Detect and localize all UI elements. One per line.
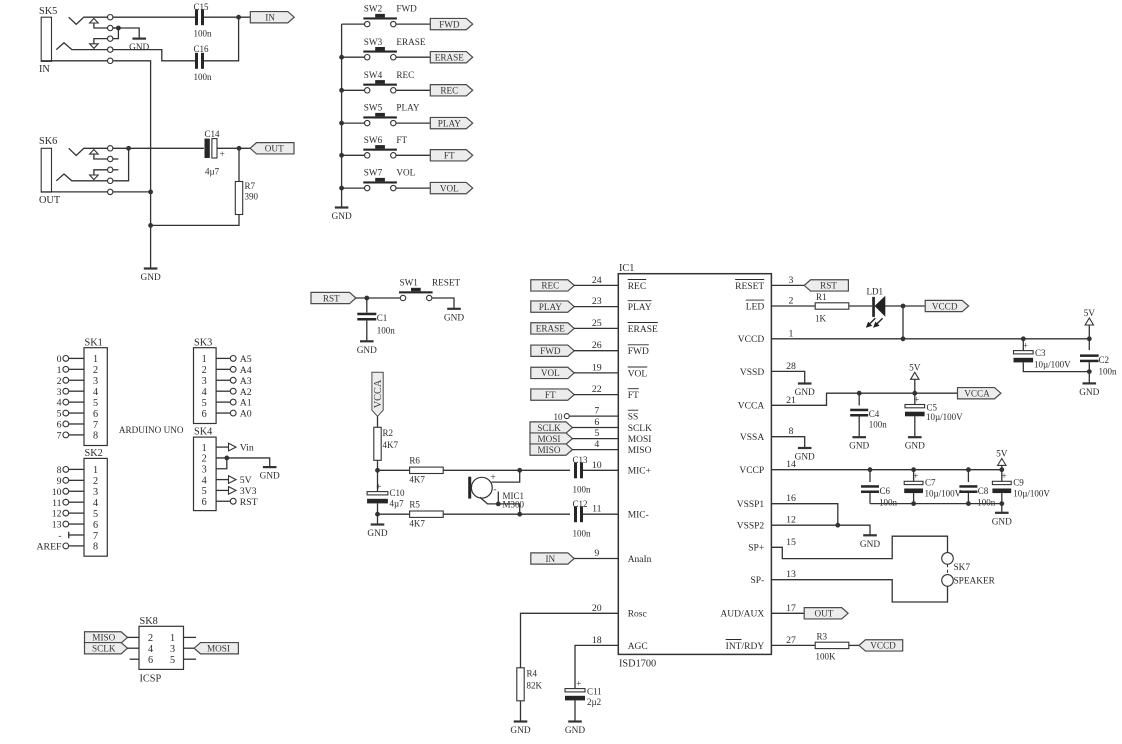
svg-text:VSSP2: VSSP2: [737, 522, 765, 532]
svg-text:5: 5: [93, 509, 98, 520]
svg-text:VOL: VOL: [396, 168, 415, 178]
svg-text:R3: R3: [817, 632, 828, 642]
svg-text:4: 4: [93, 498, 98, 509]
svg-text:MOSI: MOSI: [628, 435, 652, 445]
svg-text:2µ2: 2µ2: [587, 697, 601, 707]
connector SK2 arduino digital 8-13 AREF: [36, 448, 107, 556]
svg-text:4: 4: [594, 439, 599, 450]
svg-text:10: 10: [52, 487, 62, 498]
connector SK8 ICSP header: [139, 616, 184, 685]
net tag MISO to IC1: [530, 444, 618, 455]
net tag FWD: [430, 18, 472, 29]
svg-text:C2: C2: [1099, 355, 1110, 365]
pin 23 PLAY of IC1: [592, 296, 652, 313]
svg-text:IC1: IC1: [619, 263, 634, 274]
pin 5 MOSI of IC1: [594, 428, 651, 445]
net tag IN (input): [250, 12, 294, 23]
svg-text:ERASE: ERASE: [396, 37, 425, 47]
wire VCCP pin rail: [771, 467, 1004, 472]
pin 22 FT of IC1: [592, 384, 639, 401]
svg-text:8: 8: [93, 431, 98, 442]
svg-text:5V: 5V: [1084, 309, 1096, 319]
svg-text:9: 9: [594, 548, 599, 559]
wire VCCD pin 1 rail: [771, 336, 1091, 341]
svg-text:C14: C14: [205, 129, 221, 139]
svg-text:SW4: SW4: [364, 70, 383, 80]
resistor R5 4K7: [378, 500, 444, 529]
power tag VCCA vertical: [372, 372, 384, 416]
svg-text:SP+: SP+: [748, 544, 764, 554]
svg-text:3: 3: [202, 465, 207, 476]
wire C5 to GND: [914, 416, 916, 437]
svg-text:8: 8: [93, 542, 98, 553]
net tag RST at RESET pin: [804, 280, 848, 291]
svg-text:SPEAKER: SPEAKER: [954, 577, 996, 587]
svg-text:ARDUINO UNO: ARDUINO UNO: [119, 425, 184, 435]
wire RESET pin to RST tag: [771, 284, 805, 286]
svg-text:GND: GND: [444, 313, 464, 323]
svg-text:8: 8: [789, 426, 794, 437]
wire C2 to GND: [1087, 362, 1092, 383]
svg-text:RST: RST: [240, 497, 258, 508]
svg-text:RST: RST: [323, 293, 340, 303]
power 5V arrow at C2: [1084, 309, 1096, 339]
wire SK6 ring to tip node: [113, 148, 129, 181]
svg-text:VCCP: VCCP: [739, 466, 764, 476]
svg-text:FWD: FWD: [396, 4, 417, 14]
svg-text:MOSI: MOSI: [207, 644, 230, 654]
svg-text:R5: R5: [409, 500, 420, 510]
pin 9 AnaIn of IC1: [594, 548, 651, 565]
svg-text:12: 12: [786, 515, 796, 526]
ground GND under C11: [565, 722, 585, 737]
connector SK5 audio jack IN: [39, 6, 118, 75]
svg-text:13: 13: [52, 520, 62, 531]
capacitor C9 10u/100V polarized: [992, 470, 1050, 499]
svg-text:SK7: SK7: [954, 563, 971, 573]
svg-text:R1: R1: [816, 292, 827, 302]
svg-text:5: 5: [170, 655, 175, 666]
svg-text:1: 1: [93, 354, 98, 365]
ground GND at VSSA: [795, 448, 815, 463]
wire R3 to VCCD tag: [849, 644, 859, 646]
pin SK8-5 stub: [184, 658, 197, 660]
svg-text:GND: GND: [860, 540, 880, 550]
svg-text:27: 27: [786, 635, 796, 646]
svg-text:18: 18: [592, 635, 602, 646]
wire C11 to GND: [574, 700, 576, 721]
svg-text:3: 3: [202, 376, 207, 387]
net tag FWD to IC1: [531, 345, 619, 356]
capacitor C12 100n: [573, 499, 592, 539]
svg-text:GND: GND: [795, 453, 815, 463]
svg-text:2: 2: [148, 633, 153, 644]
svg-text:19: 19: [592, 362, 602, 373]
svg-text:R2: R2: [383, 428, 394, 438]
wire VSSD pin to GND: [771, 371, 804, 383]
svg-text:VOL: VOL: [440, 183, 459, 193]
ground GND under C10: [367, 514, 387, 539]
capacitor C6 100n: [861, 470, 898, 508]
svg-text:2: 2: [93, 365, 98, 376]
svg-text:1: 1: [93, 465, 98, 476]
svg-text:AnaIn: AnaIn: [628, 555, 652, 565]
capacitor C16: [194, 44, 213, 82]
ground GND under C2: [1079, 383, 1099, 398]
svg-text:FT: FT: [444, 151, 455, 161]
connector SK7 SPEAKER: [942, 553, 996, 587]
power 5V arrow at C5: [909, 363, 921, 393]
svg-text:100n: 100n: [377, 326, 396, 336]
pin SK8-1 stub: [184, 636, 197, 638]
pin 19 VOL of IC1: [592, 362, 648, 379]
ground GND under C9: [992, 513, 1012, 528]
svg-text:VCCA: VCCA: [964, 389, 990, 399]
wire R5 to C12: [443, 512, 570, 517]
capacitor C14 4u7 polarized: [205, 129, 225, 177]
svg-text:MISO: MISO: [92, 633, 115, 643]
svg-text:C15: C15: [194, 2, 210, 12]
svg-text:24: 24: [592, 275, 602, 286]
svg-text:3: 3: [170, 644, 175, 655]
wire AGC pin to C11: [575, 645, 618, 688]
pushbutton SW3 ERASE: [342, 37, 431, 60]
svg-text:R7: R7: [245, 181, 256, 191]
svg-text:FT: FT: [628, 391, 639, 401]
wire R7 to ground rail: [151, 215, 239, 226]
svg-text:10µ/100V: 10µ/100V: [926, 412, 963, 422]
svg-text:R6: R6: [409, 456, 420, 466]
wire C9 to bottom bus and GND: [870, 493, 1004, 513]
ground GND under C1: [357, 341, 377, 356]
pin 4 MISO of IC1: [594, 439, 651, 456]
svg-text:100K: 100K: [816, 652, 837, 662]
capacitor C10 4u7 polarized: [367, 470, 405, 508]
svg-text:MISO: MISO: [538, 445, 561, 455]
pin 12 VSSP2 of IC1: [737, 515, 796, 532]
svg-text:OUT: OUT: [815, 609, 834, 619]
svg-text:OUT: OUT: [265, 144, 284, 154]
svg-text:2: 2: [789, 296, 794, 307]
svg-text:4µ7: 4µ7: [390, 499, 405, 509]
wire LD1 to VCCD tag: [885, 304, 925, 309]
svg-text:Vin: Vin: [240, 443, 254, 454]
capacitor C7 10u/100V polarized: [904, 470, 961, 499]
net tag SCLK to IC1: [530, 422, 618, 433]
svg-text:VSSD: VSSD: [740, 368, 764, 378]
svg-text:R4: R4: [527, 669, 538, 679]
pin SK4-6 RST: [216, 497, 258, 508]
svg-text:GND: GND: [357, 346, 377, 356]
svg-text:5V: 5V: [996, 449, 1008, 459]
svg-text:C9: C9: [1013, 477, 1024, 487]
pin 2 LED of IC1: [746, 296, 794, 313]
svg-text:GND: GND: [905, 442, 925, 452]
svg-text:GND: GND: [332, 212, 352, 222]
svg-text:1: 1: [202, 354, 207, 365]
svg-text:VCCD: VCCD: [870, 641, 896, 651]
wire C4 to GND: [858, 416, 860, 437]
svg-text:2: 2: [57, 376, 62, 387]
svg-text:C11: C11: [587, 687, 602, 697]
svg-text:4K7: 4K7: [383, 440, 399, 450]
svg-text:23: 23: [592, 296, 602, 307]
pin 7 SS of IC1: [594, 406, 638, 423]
resistor R2 4K7: [374, 416, 399, 460]
net tag FT: [430, 150, 472, 161]
svg-text:3: 3: [93, 487, 98, 498]
net tag MISO at SK8: [85, 632, 140, 643]
svg-text:REC: REC: [396, 70, 414, 80]
svg-text:AREF: AREF: [36, 542, 62, 553]
svg-text:+: +: [913, 472, 918, 482]
svg-text:6: 6: [202, 497, 207, 508]
svg-text:RESET: RESET: [432, 278, 460, 288]
svg-text:6: 6: [594, 417, 599, 428]
svg-text:MISO: MISO: [628, 446, 652, 456]
svg-text:FWD: FWD: [628, 347, 649, 357]
svg-text:IN: IN: [545, 554, 555, 564]
svg-text:REC: REC: [440, 86, 458, 96]
svg-text:3: 3: [57, 387, 62, 398]
svg-text:4K7: 4K7: [409, 519, 425, 529]
pin SK4-4 5V: [216, 475, 252, 486]
pin 8 VSSA of IC1: [740, 426, 794, 443]
svg-text:6: 6: [57, 420, 62, 431]
ground GND audio common: [141, 269, 161, 284]
wire R6 to C13: [443, 468, 570, 473]
svg-text:+: +: [1023, 342, 1028, 352]
svg-text:LD1: LD1: [867, 287, 884, 297]
svg-text:Rosc: Rosc: [628, 610, 647, 620]
wire C8 to bottom bus: [967, 493, 969, 504]
resistor R3 100K: [815, 632, 849, 662]
svg-text:ICSP: ICSP: [140, 674, 162, 685]
svg-text:4: 4: [57, 398, 62, 409]
pushbutton SW2 FWD: [342, 4, 431, 27]
svg-text:3: 3: [789, 275, 794, 286]
svg-text:PLAY: PLAY: [539, 302, 563, 312]
pin SK4-5 3V3: [216, 486, 257, 497]
wire switch ground bus: [339, 24, 344, 207]
svg-text:25: 25: [592, 318, 602, 329]
svg-text:SCLK: SCLK: [628, 424, 652, 434]
pin 6 SCLK of IC1: [594, 417, 652, 434]
svg-text:10µ/100V: 10µ/100V: [1034, 360, 1071, 370]
svg-text:4: 4: [148, 644, 153, 655]
wire C13 to MIC+ pin: [583, 469, 618, 471]
svg-text:10µ/100V: 10µ/100V: [925, 489, 962, 499]
wire INT/RDY to R3: [771, 644, 815, 646]
svg-text:A1: A1: [240, 398, 252, 409]
pushbutton SW6 FT: [342, 135, 431, 158]
svg-text:1: 1: [170, 633, 175, 644]
ground GND at VSSD: [795, 384, 815, 399]
svg-text:A3: A3: [240, 376, 252, 387]
capacitor C4 100n: [850, 393, 887, 429]
pin 15 SP+ of IC1: [748, 537, 796, 554]
net tag MOSI to IC1: [530, 433, 618, 444]
pin 10 MIC+ of IC1: [592, 460, 651, 477]
wire MIC1 minus to MIC- rail: [480, 492, 520, 515]
wire C7 to bottom bus: [913, 493, 915, 504]
svg-text:SCLK: SCLK: [92, 644, 116, 654]
svg-text:SK4: SK4: [194, 427, 212, 438]
svg-text:SK8: SK8: [140, 616, 158, 627]
svg-text:VCCA: VCCA: [373, 379, 384, 408]
svg-text:GND: GND: [849, 442, 869, 452]
svg-text:+: +: [220, 150, 225, 160]
pin 14 VCCP of IC1: [739, 459, 796, 476]
svg-text:C8: C8: [978, 486, 989, 496]
capacitor C2 100n: [1080, 339, 1117, 377]
net tag VOL: [430, 182, 472, 193]
pin 28 VSSD of IC1: [740, 361, 796, 378]
pushbutton SW1 RESET: [399, 278, 460, 301]
svg-text:C10: C10: [390, 488, 406, 498]
svg-text:C12: C12: [573, 499, 588, 509]
wire R2 to MIC+ rail: [375, 460, 380, 472]
net tag MOSI at SK8: [184, 643, 239, 654]
svg-text:A0: A0: [240, 409, 252, 420]
svg-text:GND: GND: [992, 517, 1012, 527]
svg-text:C7: C7: [925, 477, 936, 487]
svg-text:GND: GND: [565, 726, 585, 736]
svg-text:7: 7: [594, 406, 599, 417]
svg-text:A4: A4: [240, 365, 252, 376]
svg-text:REC: REC: [541, 281, 559, 291]
svg-text:7: 7: [57, 431, 62, 442]
svg-text:5: 5: [594, 428, 599, 439]
svg-text:SCLK: SCLK: [537, 423, 561, 433]
svg-text:5: 5: [93, 398, 98, 409]
svg-text:GND: GND: [367, 529, 387, 539]
svg-text:INT/RDY: INT/RDY: [726, 642, 765, 652]
ground GND at SK4: [260, 467, 280, 482]
svg-text:0: 0: [57, 354, 62, 365]
svg-text:SK1: SK1: [85, 337, 103, 348]
svg-text:IN: IN: [265, 13, 275, 23]
resistor R1 1K: [815, 292, 849, 324]
svg-text:ERASE: ERASE: [536, 324, 565, 334]
ground GND under C5: [905, 437, 925, 452]
net tag PLAY: [430, 117, 472, 128]
net tag REC to IC1: [531, 280, 619, 291]
svg-text:SS: SS: [628, 413, 639, 423]
svg-text:11: 11: [592, 504, 602, 515]
wire MIC1 plus to MIC+ rail: [492, 470, 520, 482]
ground GND at SW1: [444, 309, 464, 324]
wire VSSP2 pin to GND: [771, 523, 870, 536]
wire C1 to GND: [366, 321, 368, 342]
svg-text:5: 5: [202, 398, 207, 409]
wire VCCA pin rail: [771, 391, 957, 405]
wire VSSA pin to GND: [771, 437, 804, 448]
net tag ERASE to IC1: [531, 323, 619, 334]
svg-text:GND: GND: [260, 472, 280, 482]
wire RST to SW1: [356, 296, 401, 301]
svg-text:PLAY: PLAY: [396, 103, 420, 113]
pushbutton SW5 PLAY: [342, 103, 431, 126]
svg-text:3V3: 3V3: [240, 486, 257, 497]
svg-text:GND: GND: [1079, 388, 1099, 398]
svg-text:5V: 5V: [909, 363, 921, 373]
wire C12 to MIC- pin: [583, 513, 618, 515]
pin 27 INT/RDY of IC1: [726, 635, 796, 652]
svg-text:5V: 5V: [240, 475, 252, 486]
wire LED pin to R1: [771, 305, 815, 307]
net tag PLAY to IC1: [531, 301, 619, 312]
pin 25 ERASE of IC1: [592, 318, 658, 335]
svg-text:390: 390: [245, 192, 259, 202]
svg-text:6: 6: [93, 520, 98, 531]
resistor R6 4K7: [378, 456, 444, 485]
svg-text:2: 2: [93, 476, 98, 487]
capacitor C3 10u/100V polarized: [1014, 339, 1072, 370]
connector SK1 arduino digital 0-7: [57, 337, 108, 445]
wire R4 to GND: [520, 701, 522, 722]
ground GND switch bus: [332, 208, 352, 223]
svg-text:100n: 100n: [573, 485, 592, 495]
net tag OUT at AUD/AUX: [804, 608, 848, 619]
svg-text:9: 9: [57, 476, 62, 487]
svg-text:AUD/AUX: AUD/AUX: [720, 610, 764, 620]
svg-text:100n: 100n: [977, 498, 996, 508]
svg-text:7: 7: [93, 531, 98, 542]
capacitor C13 100n: [573, 455, 592, 495]
svg-text:MIC-: MIC-: [628, 511, 649, 521]
svg-text:C1: C1: [377, 313, 388, 323]
wire VSSP1 pin to VSSP2 net: [771, 504, 837, 526]
resistor R7 390: [235, 148, 258, 214]
ground GND under R4: [510, 722, 530, 737]
microphone MIC1 M300: [468, 473, 524, 509]
svg-text:28: 28: [786, 361, 796, 372]
svg-text:100n: 100n: [194, 72, 213, 82]
connector SK6 audio jack OUT: [39, 136, 118, 206]
pin 20 Rosc of IC1: [592, 603, 647, 620]
pushbutton SW4 REC: [342, 70, 431, 93]
svg-text:REC: REC: [628, 282, 646, 292]
pin 17 AUD/AUX of IC1: [720, 603, 796, 620]
pin 21 VCCA of IC1: [738, 395, 796, 412]
pin stub SS with circle pin 10 of SK1 net: [554, 412, 619, 422]
wire AUD/AUX to OUT tag: [771, 612, 804, 614]
svg-text:SP-: SP-: [750, 576, 764, 586]
wire C15 to IN tag: [204, 15, 250, 20]
svg-text:ISD1700: ISD1700: [619, 659, 656, 670]
power tag VCCD at LED: [925, 300, 968, 311]
svg-text:VCCD: VCCD: [932, 301, 958, 311]
svg-text:FWD: FWD: [540, 346, 561, 356]
svg-text:FT: FT: [396, 135, 407, 145]
svg-text:2: 2: [202, 365, 207, 376]
svg-text:7: 7: [93, 420, 98, 431]
svg-text:+: +: [576, 680, 581, 690]
svg-text:5: 5: [202, 486, 207, 497]
net tag RST (reset): [311, 292, 356, 303]
svg-text:22: 22: [592, 384, 602, 395]
svg-text:GND: GND: [795, 388, 815, 398]
IC U1 ISD1700 body: [618, 263, 771, 670]
svg-text:6: 6: [93, 409, 98, 420]
pin 16 VSSP1 of IC1: [737, 493, 796, 510]
svg-text:PLAY: PLAY: [438, 118, 462, 128]
svg-text:PLAY: PLAY: [628, 303, 652, 313]
pin 11 MIC- of IC1: [592, 504, 649, 521]
svg-text:16: 16: [786, 493, 796, 504]
svg-text:5: 5: [57, 409, 62, 420]
